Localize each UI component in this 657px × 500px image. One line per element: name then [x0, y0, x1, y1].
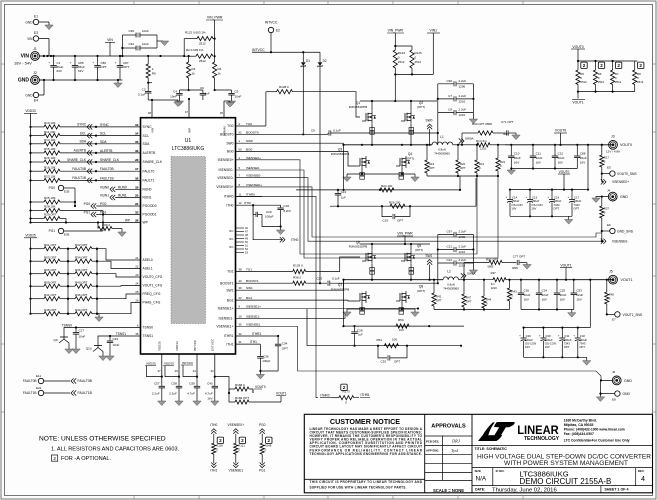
wire ITHR0 pin	[236, 192, 263, 196]
svg-text:E35: E35	[64, 190, 70, 194]
svg-text:R125: R125	[415, 51, 423, 55]
capacitor C31 330uF	[558, 328, 572, 358]
svg-text:2.2uF: 2.2uF	[459, 79, 467, 83]
title block frame	[304, 414, 652, 493]
svg-text:(OPT): (OPT)	[417, 105, 425, 109]
svg-text:7443630860: 7443630860	[434, 152, 450, 156]
svg-text:10uF: 10uF	[142, 29, 149, 33]
resistor pack Q6 gate	[370, 268, 375, 275]
ground	[175, 101, 183, 106]
svg-text:63V: 63V	[57, 69, 62, 73]
svg-text:1uF: 1uF	[358, 333, 363, 337]
svg-text:R26 100: R26 100	[389, 200, 401, 204]
svg-text:ISENSE0-: ISENSE0-	[246, 166, 260, 170]
svg-text:R9: R9	[152, 72, 156, 76]
wire output cap gnd rail ch0	[510, 167, 577, 169]
svg-text:ISENSE1+: ISENSE1+	[218, 307, 234, 311]
svg-text:R03 OPT: R03 OPT	[44, 255, 57, 259]
svg-text:VDD33: VDD33	[175, 341, 179, 351]
svg-text:OPT: OPT	[573, 206, 579, 210]
svg-text:VDD25: VDD25	[146, 362, 156, 366]
wire ISENSE1+	[236, 305, 420, 310]
svg-text:SDA: SDA	[100, 140, 107, 144]
ground	[565, 220, 573, 225]
svg-text:INP: INP	[187, 128, 191, 133]
resistor R21 0	[475, 144, 485, 177]
wire R50 row	[342, 279, 464, 328]
net chevron SW1A	[459, 271, 476, 281]
svg-text:C97: C97	[446, 230, 452, 234]
svg-text:Milpitas, CA 95035: Milpitas, CA 95035	[564, 423, 594, 427]
connector J2 GND	[18, 71, 44, 84]
title area	[472, 445, 653, 467]
svg-text:22uF: 22uF	[542, 293, 549, 297]
svg-text:TG1: TG1	[227, 270, 234, 274]
svg-text:22uF: 22uF	[576, 293, 583, 297]
resistor R173 0	[339, 384, 370, 404]
svg-text:N/A: N/A	[476, 476, 487, 483]
svg-text:RUN0: RUN0	[143, 188, 152, 192]
svg-text:16V: 16V	[207, 397, 212, 401]
svg-text:C26: C26	[524, 289, 530, 293]
diode D2	[318, 52, 327, 283]
resistor R28 10K	[29, 205, 103, 215]
svg-text:J6: J6	[612, 370, 616, 374]
svg-text:100: 100	[392, 337, 397, 341]
svg-text:VOUT0: VOUT0	[559, 170, 570, 174]
svg-text:C19: C19	[382, 219, 388, 223]
resistor R46 OPT	[68, 293, 98, 301]
capacitor C35 OPT	[378, 346, 407, 364]
ground	[568, 313, 576, 318]
resistor R128 0	[266, 85, 360, 117]
wire INTVCC	[252, 41, 320, 53]
svg-text:ITHR1: ITHR1	[224, 334, 234, 338]
svg-text:22uF: 22uF	[558, 156, 565, 160]
wire ISENSE1-	[236, 314, 346, 319]
capacitor C36 100pF	[257, 344, 270, 371]
svg-text:ITHR0: ITHR0	[320, 394, 329, 398]
svg-text:+: +	[573, 334, 575, 338]
svg-text:R169 OPT: R169 OPT	[235, 396, 249, 400]
wire BG1	[236, 296, 357, 301]
svg-text:FAULT0B: FAULT0B	[100, 167, 114, 171]
svg-text:LTC3886IUKG: LTC3886IUKG	[172, 146, 205, 152]
svg-text:THIS CIRCUIT IS PROPRIETARY TO: THIS CIRCUIT IS PROPRIETARY TO LINEAR TE…	[310, 480, 423, 484]
svg-text:10nF: 10nF	[113, 343, 120, 347]
svg-text:R25 10K: R25 10K	[44, 196, 56, 200]
svg-text:TG0: TG0	[227, 124, 234, 128]
svg-text:FOR -A OPTIONAL.: FOR -A OPTIONAL.	[61, 456, 111, 462]
svg-text:10: 10	[239, 314, 243, 318]
svg-text:49: 49	[175, 369, 179, 373]
svg-text:C10: C10	[514, 152, 520, 156]
svg-text:SW0A: SW0A	[465, 137, 474, 141]
U1 NC pins	[229, 226, 248, 255]
svg-text:Thursday, June 02, 2016: Thursday, June 02, 2016	[492, 487, 557, 493]
svg-text:VSENSE0+: VSENSE0+	[612, 180, 629, 184]
wire R124 bottom to VIN1	[395, 73, 433, 75]
svg-text:0.1uF: 0.1uF	[333, 128, 341, 132]
snubber R90 C71	[462, 120, 516, 145]
transistor Q8 OPT	[396, 285, 425, 304]
svg-text:SW1: SW1	[246, 286, 253, 290]
svg-text:14: 14	[135, 132, 139, 136]
svg-text:2512: 2512	[580, 80, 587, 84]
ground	[583, 357, 591, 365]
svg-text:R34 OPT: R34 OPT	[75, 255, 88, 259]
capacitor C24 22uF	[536, 280, 549, 310]
svg-text:VDD33: VDD33	[25, 109, 36, 113]
wire to pin row 1	[97, 249, 141, 260]
svg-text:EXTVCC: EXTVCC	[211, 338, 215, 351]
svg-text:C88: C88	[580, 152, 586, 156]
svg-text:1206: 1206	[459, 85, 466, 89]
transistor Q5 OPT	[401, 244, 423, 263]
svg-text:C23: C23	[316, 276, 322, 280]
wire EXTVCC node	[214, 376, 230, 395]
svg-text:RUN1: RUN1	[118, 194, 127, 198]
svg-text:ITH0: ITH0	[291, 238, 298, 242]
capacitor C19 OPT	[382, 206, 410, 222]
wire TSNS1	[109, 332, 141, 337]
svg-text:VDD25: VDD25	[158, 341, 162, 351]
svg-text:FAULT1: FAULT1	[143, 179, 155, 183]
svg-text:16V: 16V	[545, 345, 550, 349]
resistor R8 0 2512	[633, 61, 644, 92]
ground	[175, 401, 183, 406]
resistor R4 1k	[213, 56, 222, 91]
wire R51 row	[307, 309, 462, 347]
svg-text:LINEAR: LINEAR	[517, 423, 559, 437]
capacitor C34 OPT	[275, 336, 288, 371]
capacitor C26 22uF	[518, 280, 531, 310]
svg-text:R29 OPT: R29 OPT	[44, 213, 57, 217]
svg-text:VOUT0: VOUT0	[620, 143, 632, 147]
svg-text:SW0: SW0	[246, 139, 253, 143]
svg-text:VIN_PWR: VIN_PWR	[388, 29, 404, 33]
wire WP row	[29, 219, 140, 224]
wire VSENSE0+	[236, 183, 602, 237]
svg-text:2512: 2512	[415, 60, 422, 64]
svg-text:RUN0: RUN0	[118, 185, 127, 189]
svg-text:C11: C11	[536, 152, 542, 156]
svg-text:17: 17	[135, 167, 139, 171]
svg-text:28: 28	[135, 219, 139, 223]
ground	[99, 356, 114, 361]
capacitor C96	[121, 29, 157, 56]
ground	[152, 100, 182, 107]
wire BG0	[236, 148, 357, 167]
ground	[276, 230, 284, 235]
svg-text:VOUT0: VOUT0	[255, 385, 266, 389]
resistor R38 2	[293, 275, 327, 285]
wire PG0 row	[84, 202, 141, 209]
svg-text:FREQ_CFG: FREQ_CFG	[143, 292, 161, 296]
svg-text:VSENSE0+: VSENSE0+	[216, 185, 233, 189]
net label VIN_PWR right	[387, 29, 404, 46]
boost caps C97 C21 C22	[437, 230, 475, 284]
svg-text:C9: C9	[311, 128, 315, 132]
svg-text:24: 24	[135, 282, 139, 286]
svg-text:FAULT0: FAULT0	[143, 169, 155, 173]
resistor R13 10K	[29, 138, 140, 146]
svg-text:FAULT1B: FAULT1B	[23, 391, 37, 395]
svg-text:+: +	[115, 61, 117, 65]
resistor R48 OPT	[29, 308, 69, 316]
svg-text:VIN_PWR: VIN_PWR	[397, 232, 413, 236]
svg-text:ITH1: ITH1	[226, 342, 233, 346]
resistor R2	[184, 48, 216, 63]
svg-text:RUN1: RUN1	[100, 194, 109, 198]
resistor R129 0	[293, 257, 360, 274]
svg-text:100pF: 100pF	[265, 215, 274, 219]
svg-text:RJK0651DPB: RJK0651DPB	[349, 245, 368, 249]
svg-text:16V: 16V	[525, 345, 530, 349]
capacitor C28 1uF	[351, 326, 363, 347]
svg-text:E2: E2	[276, 29, 280, 33]
ground	[596, 394, 604, 402]
resistor R01 OPT	[29, 243, 69, 251]
svg-text:40: 40	[239, 279, 243, 283]
svg-text:R122 0.003 1%: R122 0.003 1%	[185, 31, 206, 35]
net arrow ITH0	[253, 205, 298, 242]
svg-text:Q3: Q3	[338, 148, 342, 152]
net label VOUT1 under IC	[276, 392, 287, 403]
resistor R40 OPT	[68, 280, 98, 288]
turret E1	[25, 15, 49, 26]
ground	[65, 349, 80, 354]
svg-text:R41 OPT: R41 OPT	[44, 293, 57, 297]
svg-text:2.2uF: 2.2uF	[459, 108, 467, 112]
svg-text:C13: C13	[341, 190, 347, 194]
svg-text:ITHR0: ITHR0	[246, 192, 255, 196]
svg-text:SCALE = NONE: SCALE = NONE	[433, 488, 464, 493]
svg-text:R51: R51	[376, 338, 382, 342]
resistor R03 OPT	[29, 255, 69, 263]
svg-text:VOUT1_SNS: VOUT1_SNS	[623, 313, 643, 317]
svg-text:VOUT0: VOUT0	[555, 129, 566, 133]
svg-text:VIN: VIN	[27, 37, 33, 41]
net label VIN	[105, 38, 115, 56]
wire SW0 rail	[236, 123, 433, 146]
capacitor C86	[92, 56, 107, 80]
svg-text:R40 OPT: R40 OPT	[75, 280, 88, 284]
svg-text:16V: 16V	[511, 206, 516, 210]
turret E35 PG0	[49, 185, 76, 207]
op-amp U1 LTC3886IUKG	[141, 118, 236, 354]
capacitor C40	[205, 377, 218, 401]
svg-text:TG1: TG1	[246, 268, 252, 272]
svg-text:SW0: SW0	[426, 119, 433, 123]
transistor Q6 RJK0651DPB	[349, 241, 376, 264]
svg-text:16V: 16V	[576, 298, 581, 302]
inductor L1	[432, 135, 453, 156]
svg-text:ITH0: ITH0	[226, 203, 233, 207]
capacitor C58	[169, 377, 182, 401]
svg-text:FAULT1B: FAULT1B	[72, 176, 86, 180]
resistor R29 OPT	[29, 213, 66, 223]
svg-text:ISENSE1-: ISENSE1-	[218, 317, 233, 321]
svg-text:22uF: 22uF	[560, 293, 567, 297]
svg-text:TECHNOLOGY: TECHNOLOGY	[524, 436, 560, 442]
wire RUN0	[100, 185, 140, 192]
svg-text:R38 2: R38 2	[293, 275, 301, 279]
svg-text:INTVCC: INTVCC	[252, 48, 265, 52]
svg-text:0805: 0805	[488, 265, 494, 269]
svg-text:ALERTB: ALERTB	[143, 151, 157, 155]
turret E7 VOUT1_SNS	[606, 312, 643, 322]
svg-text:29: 29	[135, 158, 139, 162]
svg-text:36: 36	[135, 332, 139, 336]
resistors R19 R20 R21 R22	[425, 144, 506, 177]
svg-text:+: +	[70, 61, 72, 65]
svg-text:10uF: 10uF	[142, 42, 149, 46]
capacitor C10 22uF	[508, 145, 521, 169]
resistor R148 0 option	[259, 423, 272, 473]
svg-text:WITH POWER SYSTEM MANAGEMENT: WITH POWER SYSTEM MANAGEMENT	[504, 460, 628, 467]
svg-text:ALERTB: ALERTB	[100, 149, 112, 153]
svg-text:J4: J4	[607, 189, 611, 193]
resistor pack Q5 gate	[409, 268, 414, 275]
svg-text:2: 2	[583, 63, 586, 68]
svg-text:R09 OPT: R09 OPT	[44, 280, 57, 284]
svg-text:7443630860: 7443630860	[443, 287, 459, 291]
resistor R118 0 option	[210, 423, 223, 473]
svg-text:R28 10K: R28 10K	[44, 205, 56, 209]
svg-text:10nF: 10nF	[170, 94, 177, 98]
svg-text:16V: 16V	[542, 298, 547, 302]
resistor R27 0	[600, 197, 610, 231]
svg-text:FAULT0B: FAULT0B	[23, 379, 37, 383]
snubber R92 C77	[464, 255, 527, 280]
svg-text:16V: 16V	[580, 161, 585, 165]
resistor R45 0	[605, 280, 615, 315]
svg-text:15: 15	[135, 140, 139, 144]
resistor R41 OPT	[29, 293, 69, 301]
svg-text:(OPT): (OPT)	[417, 289, 425, 293]
svg-text:R2 0.003 1%: R2 0.003 1%	[186, 48, 204, 52]
svg-text:RJK0653DPB: RJK0653DPB	[331, 152, 350, 156]
svg-text:50: 50	[239, 148, 243, 152]
svg-text:16: 16	[135, 149, 139, 153]
svg-text:16V: 16V	[531, 206, 536, 210]
svg-text:SW0: SW0	[226, 141, 233, 145]
resistor pack Q8 gate	[399, 308, 404, 315]
capacitor C17 330uF	[568, 190, 582, 217]
wire ITH1 net	[236, 340, 261, 344]
svg-text:ITH1: ITH1	[210, 469, 217, 473]
svg-text:OPT: OPT	[397, 219, 403, 223]
svg-text:18: 18	[135, 176, 139, 180]
svg-text:37: 37	[157, 369, 161, 373]
svg-text:VOUT0_CFG: VOUT0_CFG	[143, 275, 163, 279]
svg-text:SYNC: SYNC	[100, 123, 110, 127]
svg-text:SHARE_CLK: SHARE_CLK	[143, 160, 163, 164]
ground	[592, 198, 600, 203]
capacitor C23 0.1uF	[316, 276, 438, 285]
svg-text:SHARE_CLK: SHARE_CLK	[67, 158, 87, 162]
svg-text:19: 19	[135, 185, 139, 189]
svg-text:R49 OPT: R49 OPT	[75, 308, 88, 312]
svg-text:4.7uF: 4.7uF	[187, 392, 195, 396]
svg-text:8.2nF: 8.2nF	[283, 209, 291, 213]
svg-text:J1: J1	[33, 47, 37, 51]
ground	[469, 268, 477, 275]
svg-text:2: 2	[53, 456, 56, 461]
svg-text:VSENSE1+: VSENSE1+	[216, 325, 233, 329]
svg-text:ISENSE0+: ISENSE0+	[246, 156, 261, 160]
svg-text:PG0: PG0	[259, 423, 266, 427]
svg-text:16V: 16V	[560, 298, 565, 302]
U1 left pin names	[135, 123, 163, 338]
svg-text:R11 10K: R11 10K	[44, 130, 55, 134]
svg-text:OPT: OPT	[579, 345, 585, 349]
capacitor C16 330uF	[548, 190, 562, 217]
svg-text:R05 OPT: R05 OPT	[44, 268, 57, 272]
svg-text:BOOST1: BOOST1	[246, 279, 259, 283]
svg-text:C21: C21	[446, 245, 452, 249]
svg-text:DRJ: DRJ	[451, 439, 461, 444]
svg-text:OPT: OPT	[282, 347, 288, 351]
resistor R122	[184, 31, 216, 56]
svg-text:ASEL1: ASEL1	[143, 267, 153, 271]
resistor R09 OPT	[29, 280, 69, 288]
svg-text:R13 10K: R13 10K	[44, 138, 56, 142]
svg-text:C25: C25	[560, 289, 566, 293]
wire os-con rail ch0	[509, 145, 589, 191]
resistors R42 R47 R44 R43	[432, 279, 517, 311]
svg-text:1210: 1210	[491, 286, 498, 290]
svg-text:INTVCC: INTVCC	[265, 21, 278, 25]
diode D1	[301, 52, 310, 133]
capacitor C1	[48, 56, 63, 80]
svg-text:E4: E4	[34, 99, 38, 103]
svg-text:DEMO CIRCUIT 2155A-B: DEMO CIRCUIT 2155A-B	[519, 477, 611, 486]
svg-text:PG1: PG1	[259, 469, 266, 473]
svg-text:R36 OPT: R36 OPT	[75, 268, 88, 272]
transistor Q7 RJK0653DPB	[331, 283, 370, 303]
wire RUN1	[100, 194, 140, 201]
svg-text:R168 0: R168 0	[235, 383, 245, 387]
svg-text:12: 12	[239, 201, 243, 205]
wire TG1	[236, 268, 293, 272]
svg-text:2: 2	[600, 63, 603, 68]
svg-text:2512: 2512	[199, 59, 206, 63]
ground	[411, 309, 419, 317]
capacitor C6 1nF	[200, 86, 210, 100]
svg-text:L2: L2	[447, 270, 451, 274]
svg-text:OPT: OPT	[123, 65, 129, 69]
svg-text:1210: 1210	[459, 250, 466, 254]
svg-text:C3: C3	[142, 87, 146, 91]
wire VSENSE0-	[236, 174, 603, 243]
svg-text:+: +	[92, 61, 94, 65]
resistor R14 3m sense	[462, 139, 505, 151]
resistor R15 10K	[29, 147, 140, 155]
wire PG1 row	[84, 211, 141, 218]
net label VDD25 left	[24, 234, 37, 314]
svg-text:1k: 1k	[218, 72, 222, 76]
turret E8 GND	[599, 391, 630, 402]
svg-text:10nF: 10nF	[235, 94, 242, 98]
svg-text:GND: GND	[624, 379, 632, 383]
svg-text:FAULT0B: FAULT0B	[78, 379, 93, 383]
svg-text:+: +	[506, 195, 508, 199]
ground	[45, 25, 53, 30]
resistor R18 10K	[29, 165, 140, 173]
svg-text:R24 100: R24 100	[381, 184, 393, 188]
